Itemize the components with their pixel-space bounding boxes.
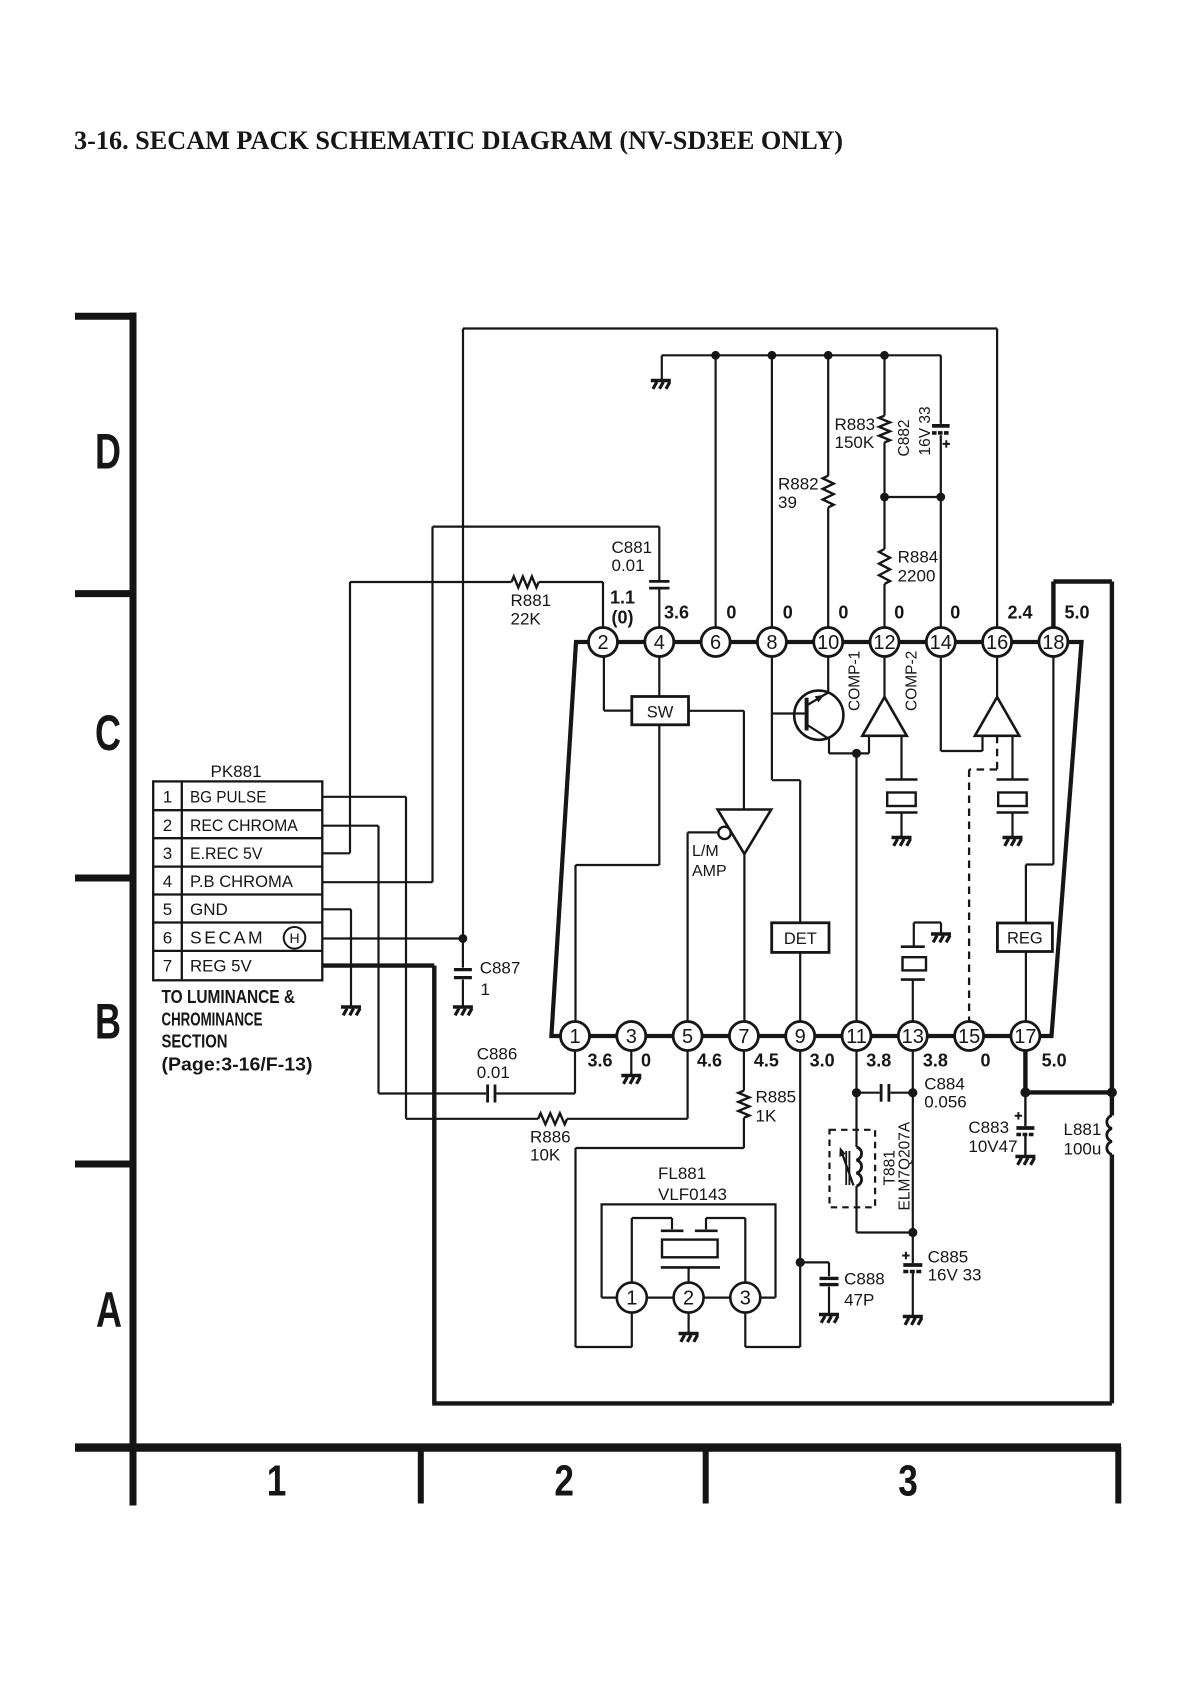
capacitor C888 xyxy=(800,1262,829,1313)
svg-text:0.056: 0.056 xyxy=(924,1093,967,1112)
capacitor C885 (electrolytic) xyxy=(912,1233,914,1316)
svg-text:18: 18 xyxy=(1042,632,1064,654)
transistor Q (internal) xyxy=(772,691,844,754)
capacitor C883 (electrolytic) xyxy=(1024,1092,1026,1155)
svg-text:BG PULSE: BG PULSE xyxy=(190,788,266,807)
svg-text:ELM7Q207A: ELM7Q207A xyxy=(897,1121,914,1210)
svg-text:COMP-2: COMP-2 xyxy=(904,651,921,711)
wire REG 5V rail (thick): right, down, along bottom, up to L881 xyxy=(322,966,1112,1404)
svg-text:3: 3 xyxy=(898,1457,918,1506)
resistor R884 xyxy=(879,549,890,584)
svg-text:1K: 1K xyxy=(756,1107,777,1126)
svg-text:100u: 100u xyxy=(1064,1140,1102,1159)
capacitor C884 xyxy=(857,1092,913,1094)
ground (connector GND) xyxy=(341,1007,361,1015)
svg-text:GND: GND xyxy=(190,900,228,919)
svg-text:1: 1 xyxy=(163,788,172,807)
IC pin 18 xyxy=(1039,628,1068,657)
svg-text:D: D xyxy=(95,425,121,480)
IC pin 16 xyxy=(983,628,1012,657)
wire pin14 column with C882 in series xyxy=(940,355,942,627)
svg-text:3.6: 3.6 xyxy=(664,603,689,623)
IC U881 body outline (slanted package) xyxy=(551,642,1081,1036)
wire SW output to L/M AMP xyxy=(689,711,744,810)
grid left border xyxy=(75,313,137,1506)
svg-text:3: 3 xyxy=(163,844,172,863)
IC pin 4 xyxy=(645,628,674,657)
svg-text:C883: C883 xyxy=(968,1118,1009,1137)
svg-text:9: 9 xyxy=(795,1026,806,1048)
svg-text:1.1: 1.1 xyxy=(610,588,635,608)
wire BG PULSE to R886 line xyxy=(322,797,406,1119)
wire pin10 internal stem to transistor xyxy=(827,657,829,693)
IC pin 5 xyxy=(673,1022,702,1051)
IC pin 1 xyxy=(561,1022,590,1051)
svg-text:SECAM: SECAM xyxy=(190,927,265,947)
transformer T881 (tunable coil, dashed case) xyxy=(830,1130,876,1208)
svg-text:1: 1 xyxy=(267,1457,287,1506)
svg-text:47P: 47P xyxy=(844,1290,874,1309)
node top-box (ground bus frame from SECAM line to pin 16) xyxy=(463,329,997,939)
svg-text:3: 3 xyxy=(740,1288,751,1310)
wire C881 line to pin4 xyxy=(433,527,660,628)
svg-text:R885: R885 xyxy=(756,1087,797,1106)
capacitor C886 xyxy=(379,1092,576,1094)
svg-text:15: 15 xyxy=(958,1026,980,1048)
svg-text:3.8: 3.8 xyxy=(866,1051,891,1071)
wire E.REC5V riser to R881 xyxy=(349,582,351,853)
svg-text:TO LUMINANCE &: TO LUMINANCE & xyxy=(162,986,296,1007)
wire pin10 column upper xyxy=(827,355,829,627)
svg-text:3.0: 3.0 xyxy=(810,1051,835,1071)
resistor R883 xyxy=(879,416,890,443)
svg-text:FL881: FL881 xyxy=(658,1164,706,1183)
IC pin 12 xyxy=(870,628,899,657)
ground (pin13 resonator) xyxy=(931,934,951,942)
wire pin11 to C884/T881 xyxy=(855,1051,857,1148)
svg-text:AMP: AMP xyxy=(692,863,727,880)
svg-text:4.6: 4.6 xyxy=(697,1051,722,1071)
node junction dots on bus xyxy=(711,351,889,360)
svg-text:4.5: 4.5 xyxy=(754,1051,779,1071)
block SW xyxy=(632,697,689,725)
svg-text:0.01: 0.01 xyxy=(477,1063,510,1082)
wire pin1 to C886 line xyxy=(574,1051,576,1094)
svg-text:1: 1 xyxy=(481,980,490,999)
svg-text:C886: C886 xyxy=(477,1045,518,1064)
svg-text:0: 0 xyxy=(894,603,904,623)
wire pin16 stem to COMP-2 xyxy=(996,657,998,698)
svg-text:14: 14 xyxy=(930,632,952,654)
filter FL881 outer box xyxy=(602,1204,776,1297)
ground (COMP-2 resonator) xyxy=(1003,838,1023,846)
wire pin4 internal stem into SW xyxy=(658,657,660,697)
svg-text:8: 8 xyxy=(766,632,777,654)
voltage labels top row xyxy=(610,588,1090,628)
inductor L881 xyxy=(1110,1092,1114,1115)
op-amp L/M AMP (inverting, bubble input) xyxy=(718,810,772,855)
wire SECAM row to C887 node xyxy=(322,937,463,939)
svg-text:7: 7 xyxy=(738,1026,749,1048)
svg-text:0: 0 xyxy=(838,603,848,623)
resistor R886 xyxy=(538,1113,567,1124)
wire L/M AMP output to pin7 xyxy=(743,854,745,1022)
wire SW bottom to pin1 xyxy=(576,725,660,1022)
svg-text:C887: C887 xyxy=(480,958,521,977)
wire E.REC 5V stub xyxy=(322,852,350,854)
resistor R881 xyxy=(512,577,539,588)
filter FL881 internals xyxy=(632,1218,746,1283)
wire transistor base branch down to DET xyxy=(772,714,800,923)
comparator COMP-1 xyxy=(862,697,907,736)
node dots C884 rail xyxy=(852,1088,861,1097)
wire pin5 internal riser to L/M AMP input xyxy=(688,832,719,1021)
wire pin12 column upper xyxy=(883,355,885,627)
svg-text:REC CHROMA: REC CHROMA xyxy=(190,816,298,835)
ground (COMP-1 resonator) xyxy=(892,838,912,846)
svg-text:5.0: 5.0 xyxy=(1064,603,1089,623)
ground (C888) xyxy=(819,1315,839,1323)
svg-text:10: 10 xyxy=(817,632,839,654)
svg-text:1: 1 xyxy=(626,1288,637,1310)
svg-text:4: 4 xyxy=(654,632,665,654)
wire transistor emitter tie to COMP-1 leg xyxy=(829,752,869,754)
svg-text:0.01: 0.01 xyxy=(612,556,645,575)
svg-text:CHROMINANCE: CHROMINANCE xyxy=(162,1008,263,1029)
wire pin18 thick loop to rail xyxy=(1053,582,1112,1093)
wire pin12 stem to COMP-1 xyxy=(883,657,885,698)
IC pin 13 xyxy=(898,1022,927,1051)
svg-text:PK881: PK881 xyxy=(211,762,262,781)
IC pin 14 xyxy=(926,628,955,657)
IC pin 6 xyxy=(701,628,730,657)
svg-text:3: 3 xyxy=(626,1026,637,1048)
svg-text:11: 11 xyxy=(846,1026,867,1048)
node rail dots xyxy=(1020,1087,1030,1097)
wire pin8 internal column xyxy=(771,657,773,714)
node pin9/C888 junction dot xyxy=(796,1258,805,1267)
svg-text:150K: 150K xyxy=(835,433,875,452)
wire GND row to ground xyxy=(322,909,351,1006)
voltage labels bottom row xyxy=(587,1051,1066,1071)
svg-text:0: 0 xyxy=(783,603,793,623)
wire R883/C882 tie at 497 xyxy=(885,496,941,498)
wire pin13 column xyxy=(912,1051,914,1233)
wire pin17 thick drop to 5V rail xyxy=(1023,1051,1027,1093)
wire pin8 column xyxy=(771,355,773,627)
svg-text:R886: R886 xyxy=(530,1127,571,1146)
svg-text:5.0: 5.0 xyxy=(1042,1051,1067,1071)
wire REC CHROMA to C886 line xyxy=(322,826,378,1094)
wire P.B CHROMA stub xyxy=(322,881,432,883)
ground (pin3) xyxy=(630,1051,632,1075)
filter FL881 pin 1 xyxy=(617,1283,647,1313)
svg-text:L881: L881 xyxy=(1064,1120,1102,1139)
svg-text:R881: R881 xyxy=(511,591,552,610)
wire pin6 column xyxy=(714,355,716,627)
node emitter junction dot xyxy=(852,749,861,758)
svg-text:VLF0143: VLF0143 xyxy=(658,1185,727,1204)
svg-text:C882: C882 xyxy=(896,419,913,456)
filter FL881 pin 3 xyxy=(730,1283,760,1313)
svg-text:R884: R884 xyxy=(898,547,939,566)
svg-text:6: 6 xyxy=(163,928,172,947)
svg-text:A: A xyxy=(96,1283,122,1338)
IC pin 9 xyxy=(786,1022,815,1051)
svg-text:5: 5 xyxy=(163,900,172,919)
wire pin14 internal jog to COMP-2 xyxy=(941,657,983,752)
note TO LUMINANCE & CHROMINANCE SECTION xyxy=(162,986,313,1075)
IC pin 8 xyxy=(757,628,786,657)
svg-text:REG 5V: REG 5V xyxy=(190,956,252,975)
ground (bus left end) xyxy=(661,355,663,379)
svg-text:C: C xyxy=(95,706,121,761)
wire REG to pin17 xyxy=(1025,952,1027,1022)
svg-text:B: B xyxy=(95,995,121,1050)
resistor R885 xyxy=(743,1051,745,1091)
node junction dots at 497 xyxy=(880,493,889,502)
wire R886 line pin5 xyxy=(406,1051,688,1119)
svg-text:39: 39 xyxy=(778,493,797,512)
wire pin2 internal jog to SW xyxy=(604,657,632,711)
ground (C885) xyxy=(903,1317,923,1325)
wire dashed COMP-2 to pin15 xyxy=(969,736,997,1022)
block REG xyxy=(997,923,1052,952)
svg-text:2200: 2200 xyxy=(898,567,936,586)
svg-text:3.8: 3.8 xyxy=(923,1051,948,1071)
svg-text:6: 6 xyxy=(710,632,721,654)
ground (FL881 pin2) xyxy=(687,1313,689,1333)
svg-text:10V47: 10V47 xyxy=(968,1137,1017,1156)
svg-text:L/M: L/M xyxy=(692,843,719,860)
wire R881 line to pin2 xyxy=(350,582,603,628)
capacitor C881 xyxy=(649,581,669,588)
svg-text:16: 16 xyxy=(986,632,1008,654)
svg-text:H: H xyxy=(289,930,299,946)
IC pin 17 xyxy=(1011,1022,1040,1051)
wire FL881 pin3 to pin9 column xyxy=(745,1051,800,1348)
svg-text:P.B CHROMA: P.B CHROMA xyxy=(190,872,294,891)
resonator (COMP-1) xyxy=(886,736,918,837)
svg-text:5: 5 xyxy=(682,1026,693,1048)
IC pin 10 xyxy=(814,628,843,657)
svg-text:17: 17 xyxy=(1014,1026,1036,1048)
wire DET output to pin9 xyxy=(799,952,801,1021)
svg-text:2: 2 xyxy=(683,1288,694,1310)
IC pin 11 xyxy=(842,1022,871,1051)
svg-text:2: 2 xyxy=(554,1457,574,1506)
svg-text:4: 4 xyxy=(163,872,172,891)
wire ground bus xyxy=(662,354,941,356)
ground (C883) xyxy=(1015,1157,1035,1165)
svg-text:7: 7 xyxy=(163,956,172,975)
comparator COMP-2 xyxy=(975,697,1019,736)
wire pin18 internal to REG xyxy=(1026,657,1054,924)
resistor R882 xyxy=(823,476,834,508)
svg-text:16V 33: 16V 33 xyxy=(917,406,934,455)
wire P.B CHROMA riser to C881 line xyxy=(431,527,433,883)
IC pin 7 xyxy=(729,1022,758,1051)
wire pin11 internal column xyxy=(855,753,857,1021)
svg-text:0: 0 xyxy=(641,1051,651,1071)
grid bottom border xyxy=(75,1447,1121,1504)
wire T881 bottom to C885 node xyxy=(857,1186,913,1233)
svg-text:2: 2 xyxy=(597,632,608,654)
capacitor C887 xyxy=(462,939,464,1007)
svg-text:C888: C888 xyxy=(844,1270,885,1289)
svg-text:3.6: 3.6 xyxy=(587,1051,612,1071)
node SECAM junction dot xyxy=(459,934,468,943)
svg-text:3-16. SECAM PACK SCHEMATIC DIA: 3-16. SECAM PACK SCHEMATIC DIAGRAM (NV-S… xyxy=(74,125,843,155)
svg-text:2: 2 xyxy=(163,816,172,835)
svg-text:10K: 10K xyxy=(530,1146,561,1165)
svg-text:R882: R882 xyxy=(778,475,819,494)
svg-text:R883: R883 xyxy=(835,415,876,434)
node C885 junction dot xyxy=(908,1228,917,1237)
resonator (pin13, grounded top) xyxy=(901,923,941,1022)
svg-text:SECTION: SECTION xyxy=(162,1030,228,1051)
svg-text:22K: 22K xyxy=(511,610,542,629)
svg-text:16V 33: 16V 33 xyxy=(928,1266,982,1285)
svg-text:13: 13 xyxy=(902,1026,924,1048)
svg-text:2.4: 2.4 xyxy=(1007,603,1032,623)
svg-text:SW: SW xyxy=(647,703,674,721)
resonator (COMP-2) xyxy=(997,736,1029,837)
svg-text:0: 0 xyxy=(950,603,960,623)
svg-text:C881: C881 xyxy=(612,538,653,557)
svg-text:DET: DET xyxy=(784,930,817,948)
filter FL881 pin 2 xyxy=(674,1283,704,1313)
svg-text:REG: REG xyxy=(1007,930,1043,948)
svg-text:C884: C884 xyxy=(924,1074,965,1093)
wire pin7/R885 loop to FL881 pin1 xyxy=(576,1118,744,1347)
capacitor C882 (electrolytic) xyxy=(932,426,950,448)
ground (C887) xyxy=(453,1007,473,1015)
svg-text:0: 0 xyxy=(980,1051,990,1071)
svg-text:E.REC 5V: E.REC 5V xyxy=(190,844,263,863)
svg-text:(Page:3-16/F-13): (Page:3-16/F-13) xyxy=(162,1054,313,1075)
svg-text:0: 0 xyxy=(726,603,736,623)
svg-text:(0): (0) xyxy=(612,608,634,628)
svg-text:C885: C885 xyxy=(928,1248,969,1267)
IC pin 15 xyxy=(955,1022,984,1051)
svg-text:12: 12 xyxy=(873,632,895,654)
wire 5V rail pin17 to L881 xyxy=(1025,1090,1112,1094)
svg-text:1: 1 xyxy=(569,1026,580,1048)
IC pin 2 xyxy=(589,628,618,657)
svg-text:COMP-1: COMP-1 xyxy=(847,651,864,711)
IC pin 3 xyxy=(617,1022,646,1051)
block DET xyxy=(772,923,829,953)
